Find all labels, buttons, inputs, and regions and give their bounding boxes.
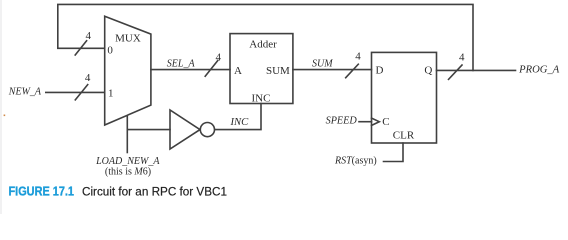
inverter triangle [170, 110, 200, 149]
svg-text:1: 1 [108, 87, 114, 99]
svg-text:SEL_A: SEL_A [167, 58, 196, 69]
svg-text:FIGURE 17.1: FIGURE 17.1 [9, 184, 75, 199]
svg-text:Adder: Adder [249, 39, 277, 51]
page left edge artifact line [0, 0, 2, 214]
svg-text:RST(asyn): RST(asyn) [334, 156, 377, 167]
svg-text:(this is M6): (this is M6) [105, 167, 151, 178]
svg-text:LOAD_NEW_A: LOAD_NEW_A [95, 156, 160, 167]
wire SEL_A from MUX output to Adder pin A [151, 69, 230, 71]
svg-text:4: 4 [85, 72, 91, 84]
wire SPEED to clock pin C [359, 121, 372, 123]
svg-text:INC: INC [252, 93, 271, 105]
svg-text:CLR: CLR [393, 129, 415, 141]
svg-text:A: A [234, 65, 242, 77]
wire NEW_A input to MUX input 1 [46, 91, 105, 93]
adder box body [230, 34, 293, 104]
svg-text:C: C [382, 116, 389, 128]
svg-text:PROG_A: PROG_A [518, 65, 560, 76]
svg-text:MUX: MUX [115, 33, 141, 45]
svg-text:INC: INC [229, 117, 248, 128]
svg-text:4: 4 [459, 51, 465, 63]
svg-text:0: 0 [107, 44, 113, 56]
svg-text:SUM: SUM [266, 65, 290, 77]
scan speck [4, 115, 6, 117]
svg-text:4: 4 [86, 30, 92, 42]
svg-text:NEW_A: NEW_A [8, 87, 42, 98]
register flip-flop box body [372, 52, 437, 143]
mux M6 trapezoid body [105, 16, 151, 125]
wire MUX select vertical (LOAD_NEW_A) [126, 116, 128, 152]
bus-width slash on NEW_A wire [75, 85, 87, 100]
svg-text:Circuit for an RPC for VBC1: Circuit for an RPC for VBC1 [82, 185, 227, 199]
svg-text:4: 4 [355, 51, 361, 63]
svg-text:Q: Q [424, 64, 432, 76]
inverter bubble [200, 123, 214, 137]
bus-width slash on SEL_A wire [205, 61, 218, 77]
wire RST to CLR pin [384, 143, 404, 162]
wire SUM from Adder to register pin D [293, 69, 372, 71]
svg-text:4: 4 [216, 51, 222, 63]
svg-text:D: D [376, 64, 384, 76]
clock wedge on pin C [372, 118, 380, 125]
svg-text:SPEED: SPEED [326, 116, 358, 127]
wire Q output to PROG_A [437, 69, 516, 71]
bus-width slash on Q wire [449, 65, 463, 79]
bus-width slash on SUM wire [346, 64, 359, 78]
bus-width slash on feedback wire [75, 41, 86, 55]
wire select node to inverter input [127, 129, 170, 131]
svg-text:SUM: SUM [312, 59, 333, 70]
wire feedback loop from node at Q over the top to MUX input 0 [58, 4, 473, 70]
wire INC from inverter bubble to Adder pin INC [215, 104, 262, 130]
